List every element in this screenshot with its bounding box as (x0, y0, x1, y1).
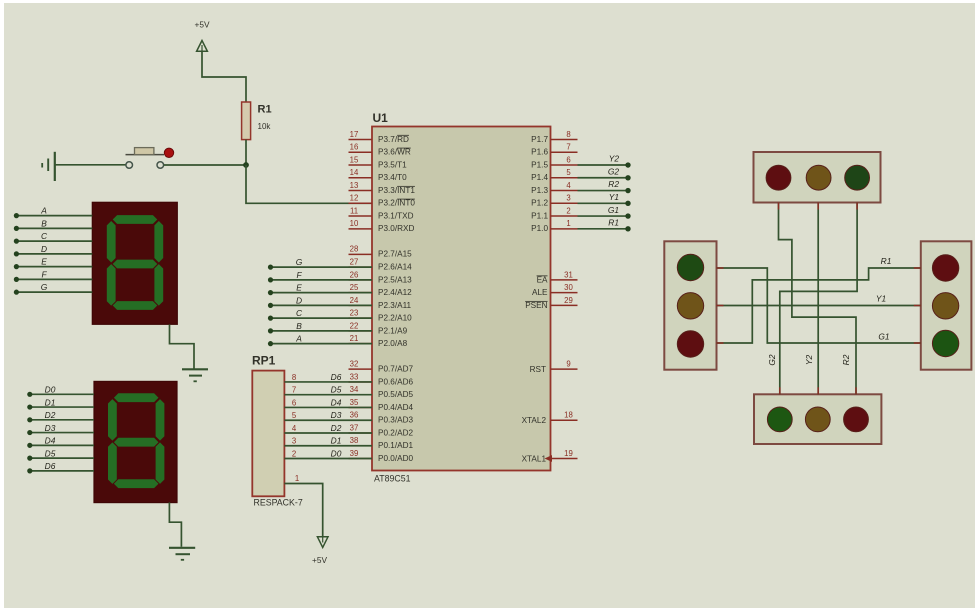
svg-text:11: 11 (350, 206, 358, 215)
svg-text:8: 8 (292, 373, 296, 382)
svg-text:P3.5/T1: P3.5/T1 (378, 160, 407, 169)
svg-text:8: 8 (566, 130, 570, 139)
svg-text:P0.2/AD2: P0.2/AD2 (378, 428, 413, 437)
net B wire to DS1 (14, 218, 93, 231)
svg-text:32: 32 (350, 360, 359, 369)
svg-text:D5: D5 (331, 385, 342, 395)
svg-text:D: D (296, 295, 302, 305)
U1 XTAL1 pin arrow (545, 455, 553, 462)
net G wire to DS1 (14, 282, 93, 295)
TL1 amber lamp (806, 165, 831, 190)
power +5V (bottom) (312, 537, 328, 565)
svg-text:2: 2 (292, 450, 296, 459)
svg-text:18: 18 (564, 411, 573, 420)
svg-text:RESPACK-7: RESPACK-7 (254, 498, 303, 508)
svg-text:D6: D6 (45, 461, 56, 471)
wire +5V to R1 (202, 51, 246, 102)
svg-text:3: 3 (292, 437, 296, 446)
U1 pin names P2.x (378, 250, 412, 348)
svg-text:D2: D2 (45, 410, 56, 420)
svg-text:D6: D6 (331, 372, 342, 382)
net D4 wire to DS2 (27, 436, 94, 448)
net D4 wire RP1 pin 6 to U1 (284, 397, 372, 407)
U1 pin names P1.x (531, 135, 548, 233)
svg-text:P3.7/RD: P3.7/RD (378, 135, 409, 144)
svg-text:+5V: +5V (195, 20, 210, 30)
svg-text:16: 16 (350, 143, 359, 152)
svg-text:19: 19 (564, 449, 573, 458)
svg-text:12: 12 (350, 194, 359, 203)
svg-text:28: 28 (350, 245, 359, 254)
svg-text:P3.4/T0: P3.4/T0 (378, 173, 407, 182)
net Y2 wire from U1 P1.5 (578, 154, 631, 168)
TL4 red lamp (844, 407, 869, 432)
net D1 wire to DS2 (27, 397, 94, 409)
svg-text:5: 5 (566, 168, 571, 177)
svg-text:7: 7 (292, 386, 296, 395)
IC U1 AT89C51 body (372, 127, 551, 471)
svg-text:RST: RST (530, 365, 546, 374)
svg-text:P0.3/AD3: P0.3/AD3 (378, 416, 413, 425)
net D0 wire RP1 pin 2 to U1 (284, 449, 372, 459)
svg-text:D3: D3 (331, 410, 342, 420)
svg-text:38: 38 (350, 436, 359, 445)
svg-text:21: 21 (350, 334, 359, 343)
svg-text:R2: R2 (841, 354, 851, 365)
svg-text:10k: 10k (258, 122, 272, 131)
net G2 wire (TL1 green to TL4 green) (780, 203, 857, 395)
junction node A (243, 162, 249, 168)
svg-text:P2.0/A8: P2.0/A8 (378, 339, 408, 348)
net R1 wire (TL2 red to TL3 red) (717, 268, 921, 343)
svg-text:P1.1: P1.1 (531, 211, 548, 220)
svg-text:30: 30 (564, 283, 573, 292)
net D wire to DS1 (14, 244, 93, 257)
TL3 green lamp (932, 330, 958, 356)
net D3 wire RP1 pin 5 to U1 (284, 410, 372, 420)
svg-text:15: 15 (350, 155, 359, 164)
svg-text:XTAL1: XTAL1 (522, 455, 547, 464)
net D6 wire to DS2 (27, 461, 94, 473)
svg-text:39: 39 (350, 449, 359, 458)
svg-text:D1: D1 (331, 436, 342, 446)
net D2 wire to DS2 (27, 410, 94, 422)
svg-text:G2: G2 (608, 166, 620, 176)
traffic light TL2 (left) body (664, 241, 716, 369)
TL2 green lamp (677, 331, 703, 357)
svg-text:6: 6 (566, 155, 570, 164)
net G1 wire from U1 P1.1 (578, 205, 631, 219)
svg-text:D4: D4 (331, 397, 342, 407)
U1 right pin stubs (551, 140, 578, 459)
net Y1 wire from U1 P1.2 (578, 192, 631, 206)
svg-text:G1: G1 (878, 332, 889, 342)
net F wire to DS1 (14, 269, 93, 282)
svg-text:A: A (40, 206, 47, 216)
power +5V (top) (195, 20, 210, 52)
svg-text:G2: G2 (767, 354, 777, 366)
svg-text:33: 33 (350, 372, 359, 381)
svg-text:29: 29 (564, 296, 573, 305)
TL3 red lamp (932, 255, 958, 281)
svg-text:P0.0/AD0: P0.0/AD0 (378, 454, 413, 463)
svg-text:P2.1/A9: P2.1/A9 (378, 326, 408, 335)
DS2 digit segments (108, 393, 164, 488)
svg-text:31: 31 (564, 270, 573, 279)
traffic light TL3 (right) body (921, 241, 972, 369)
TL2 amber lamp (677, 293, 703, 319)
U1 left pin stubs (349, 140, 373, 459)
7-segment display DS2 body (94, 381, 177, 502)
net Y1 wire (TL2 amber to TL3 amber) (717, 305, 921, 307)
traffic light TL4 (bottom) body (754, 394, 881, 444)
svg-text:D2: D2 (331, 423, 342, 433)
wire push button to node A (164, 164, 246, 166)
svg-text:PSEN: PSEN (525, 301, 547, 310)
U1 pin names EA ALE PSEN (525, 275, 548, 310)
net D1 wire RP1 pin 3 to U1 (284, 436, 372, 446)
svg-text:D0: D0 (45, 385, 56, 395)
TL4 green lamp (767, 407, 792, 432)
svg-text:14: 14 (350, 168, 359, 177)
svg-text:F: F (296, 270, 302, 280)
svg-text:1: 1 (566, 219, 570, 228)
svg-text:P1.4: P1.4 (531, 173, 548, 182)
svg-text:R1: R1 (258, 104, 272, 116)
net R1 wire from U1 P1.0 (578, 218, 631, 232)
TL1 red lamp (766, 165, 791, 190)
svg-text:3: 3 (566, 194, 570, 203)
TL1 green lamp (845, 165, 870, 190)
svg-text:D0: D0 (331, 449, 342, 459)
DS1 digit segments (107, 215, 163, 310)
net labels G-A at U1 (295, 257, 303, 344)
resistor R1 (242, 102, 251, 140)
svg-text:9: 9 (566, 360, 570, 369)
svg-text:24: 24 (350, 296, 359, 305)
net D3 wire to DS2 (27, 423, 94, 435)
net D6 wire RP1 pin 8 to U1 (284, 372, 372, 382)
wire DS2 common to ground (169, 502, 181, 546)
svg-text:5: 5 (292, 411, 297, 420)
svg-text:RP1: RP1 (252, 354, 276, 368)
svg-text:Y2: Y2 (609, 154, 620, 164)
svg-text:P3.3/INT1: P3.3/INT1 (378, 186, 415, 195)
svg-text:1: 1 (295, 474, 299, 483)
svg-text:C: C (41, 231, 48, 241)
svg-text:P0.6/AD6: P0.6/AD6 (378, 377, 413, 386)
TL2 red lamp (677, 254, 703, 280)
svg-text:D: D (41, 244, 47, 254)
ground (below DS1) (182, 369, 208, 381)
svg-text:P1.6: P1.6 (531, 148, 548, 157)
svg-text:P0.5/AD5: P0.5/AD5 (378, 390, 413, 399)
U1 pin names P0.x (378, 365, 413, 463)
traffic light TL1 (top) body (754, 152, 881, 203)
svg-text:P2.7/A15: P2.7/A15 (378, 250, 412, 259)
svg-text:A: A (295, 334, 302, 344)
net D0 wire to DS2 (27, 385, 94, 397)
svg-text:U1: U1 (373, 111, 389, 125)
net D2 wire RP1 pin 4 to U1 (284, 423, 372, 433)
svg-text:17: 17 (350, 130, 359, 139)
svg-text:R1: R1 (881, 256, 892, 266)
svg-text:35: 35 (350, 398, 359, 407)
svg-text:P2.6/A14: P2.6/A14 (378, 263, 412, 272)
wire DS1 common to ground (170, 324, 195, 369)
wire R1 to node A (245, 140, 247, 165)
wire ground to push button (56, 164, 126, 166)
svg-text:P2.3/A11: P2.3/A11 (378, 301, 412, 310)
U1 pin numbers (left) (350, 130, 359, 458)
net R2 wire from U1 P1.3 (578, 179, 631, 193)
svg-text:23: 23 (350, 309, 359, 318)
svg-text:13: 13 (350, 181, 359, 190)
svg-text:37: 37 (350, 423, 359, 432)
svg-text:P3.6/WR: P3.6/WR (378, 148, 411, 157)
svg-text:B: B (41, 218, 47, 228)
net G2 wire from U1 P1.4 (578, 166, 631, 180)
svg-text:EA: EA (537, 275, 548, 284)
TL3 amber lamp (932, 293, 958, 319)
ground (below DS2) (169, 548, 195, 560)
svg-text:+5V: +5V (312, 555, 327, 565)
svg-text:P2.2/A10: P2.2/A10 (378, 314, 412, 323)
svg-text:2: 2 (566, 206, 570, 215)
svg-text:P3.0/RXD: P3.0/RXD (378, 224, 414, 233)
svg-text:C: C (296, 308, 303, 318)
svg-text:25: 25 (350, 283, 359, 292)
svg-text:P1.0: P1.0 (531, 224, 548, 233)
svg-text:E: E (41, 257, 47, 267)
svg-text:P1.5: P1.5 (531, 160, 548, 169)
7-segment display DS1 body (92, 202, 177, 324)
svg-text:P0.4/AD4: P0.4/AD4 (378, 403, 413, 412)
svg-text:P1.7: P1.7 (531, 135, 548, 144)
svg-text:Y1: Y1 (609, 192, 619, 202)
svg-text:ALE: ALE (532, 288, 548, 297)
svg-text:P1.2: P1.2 (531, 199, 548, 208)
traffic light module pin stubs (717, 203, 921, 395)
ground (left of button) (42, 152, 55, 181)
svg-text:34: 34 (350, 385, 359, 394)
wire node A to U1 pin P3.2/INT0 (246, 165, 372, 203)
svg-text:7: 7 (566, 143, 570, 152)
svg-text:E: E (296, 283, 302, 293)
svg-text:D3: D3 (45, 423, 56, 433)
svg-text:G: G (296, 257, 303, 267)
svg-text:4: 4 (292, 424, 297, 433)
net D5 wire to DS2 (27, 448, 94, 460)
svg-text:XTAL2: XTAL2 (522, 416, 547, 425)
svg-text:D1: D1 (45, 397, 56, 407)
nets G-A terminal dots (268, 265, 273, 347)
svg-text:Y2: Y2 (804, 355, 814, 366)
svg-text:Y1: Y1 (876, 294, 886, 304)
wire RP1 pin 1 to +5V (284, 484, 322, 537)
svg-text:F: F (41, 269, 47, 279)
svg-text:P0.1/AD1: P0.1/AD1 (378, 441, 413, 450)
svg-text:36: 36 (350, 411, 359, 420)
U1 pin names RST XTAL2 XTAL1 (522, 365, 547, 463)
svg-text:10: 10 (350, 219, 359, 228)
nets G-A wires to U1 P2.6-P2.0 (271, 267, 373, 344)
svg-text:G1: G1 (608, 205, 619, 215)
svg-text:G: G (41, 282, 48, 292)
svg-text:B: B (296, 321, 302, 331)
svg-text:22: 22 (350, 321, 359, 330)
net G1 wire (TL2 green to TL3 green) (717, 268, 921, 343)
TL4 amber lamp (805, 407, 830, 432)
svg-text:P3.2/INT0: P3.2/INT0 (378, 199, 415, 208)
svg-text:D4: D4 (45, 436, 56, 446)
net E wire to DS1 (14, 257, 93, 270)
net C wire to DS1 (14, 231, 93, 244)
push button (126, 148, 174, 169)
svg-text:P2.5/A13: P2.5/A13 (378, 275, 412, 284)
svg-text:P3.1/TXD: P3.1/TXD (378, 211, 414, 220)
svg-text:P1.3: P1.3 (531, 186, 548, 195)
net Y2 wire (TL1 amber to TL4 amber) (817, 203, 819, 395)
svg-text:D5: D5 (45, 448, 56, 458)
net A wire to DS1 (14, 206, 93, 219)
U1 pin numbers (right) (564, 130, 573, 458)
svg-text:26: 26 (350, 270, 359, 279)
svg-text:P0.7/AD7: P0.7/AD7 (378, 365, 413, 374)
svg-text:27: 27 (350, 258, 359, 267)
svg-text:R1: R1 (608, 218, 619, 228)
net D5 wire RP1 pin 7 to U1 (284, 385, 372, 395)
svg-text:4: 4 (566, 181, 571, 190)
resistor pack RP1 body (252, 371, 284, 497)
svg-text:6: 6 (292, 398, 296, 407)
net R2 wire (TL1 red to TL4 red) (779, 203, 857, 395)
svg-text:R2: R2 (608, 179, 619, 189)
svg-text:P2.4/A12: P2.4/A12 (378, 288, 412, 297)
U1 pin names P3.x (378, 135, 415, 233)
svg-text:AT89C51: AT89C51 (374, 474, 411, 484)
